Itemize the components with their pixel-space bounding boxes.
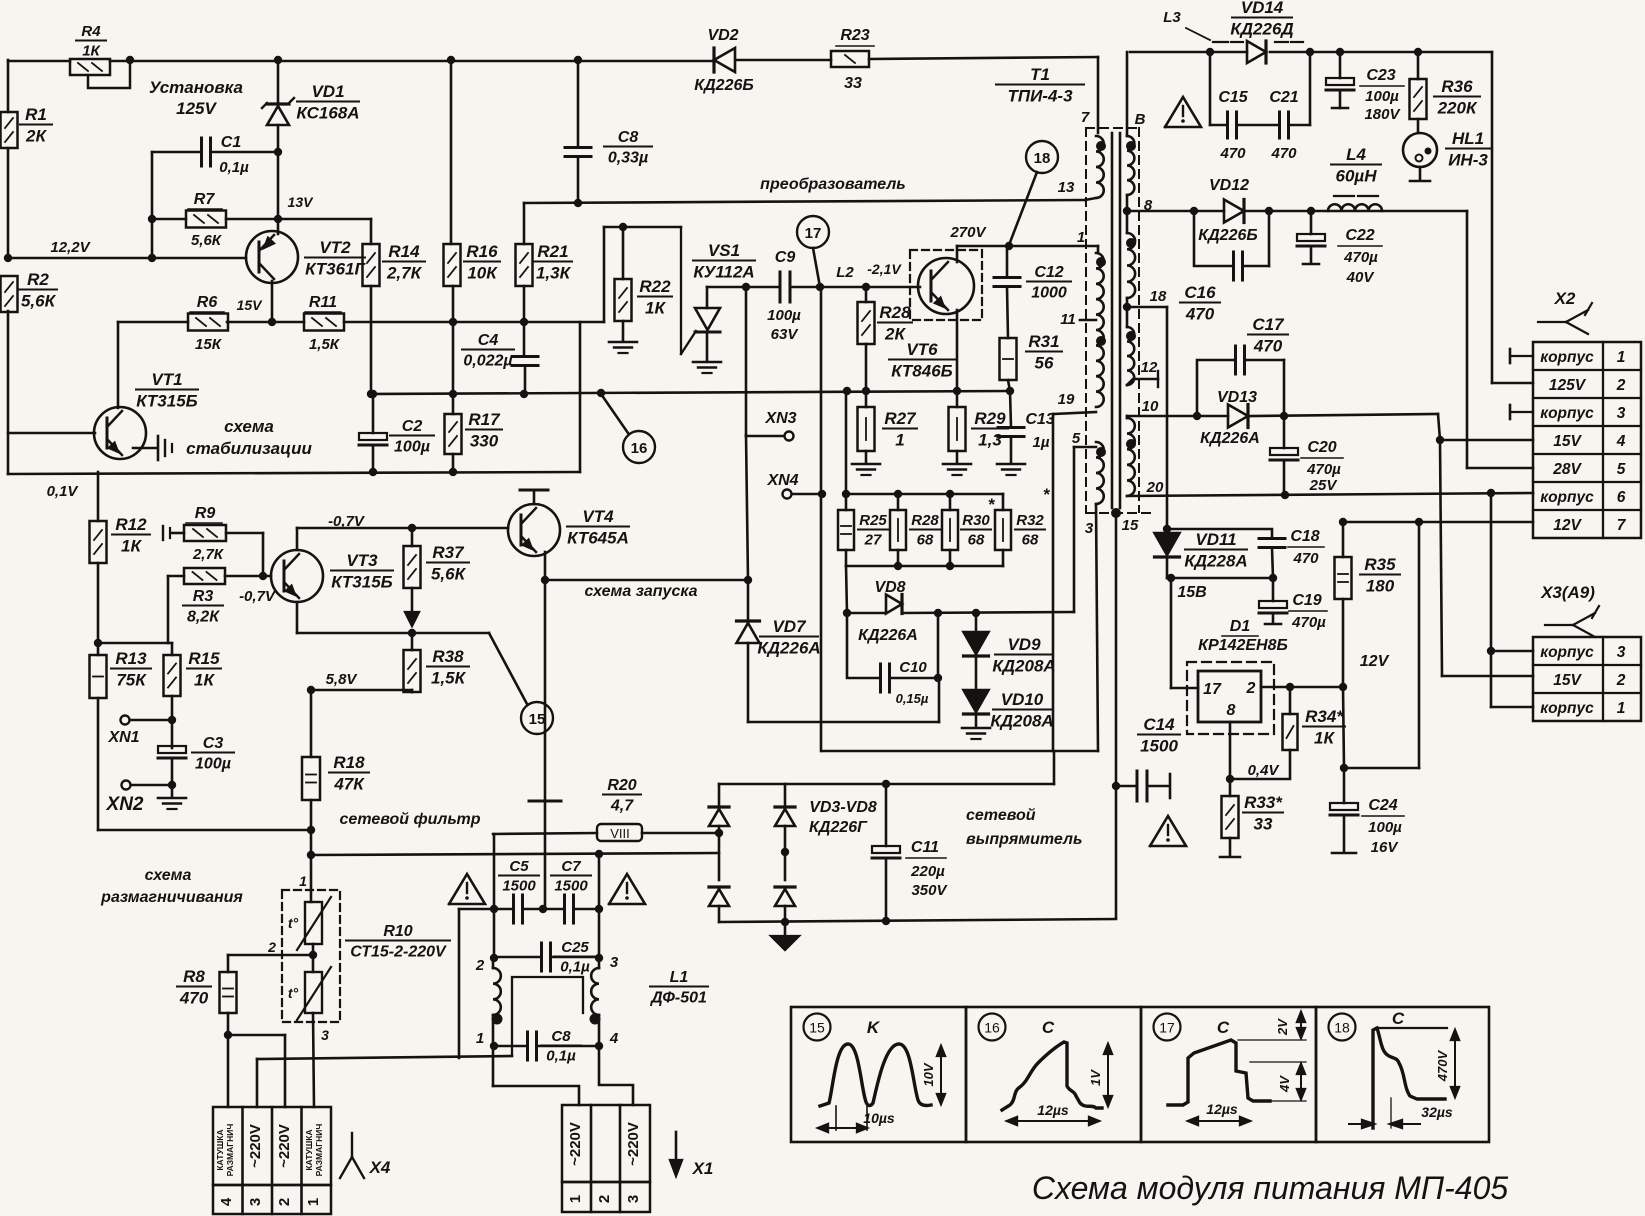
callout circle 18 <box>1026 141 1058 173</box>
diode VD5 <box>775 807 795 826</box>
capacitor C7 <box>551 858 591 923</box>
svg-text:КС168А: КС168А <box>296 104 359 123</box>
transformer dashed left <box>1085 128 1087 512</box>
svg-text:8,2К: 8,2К <box>187 609 220 626</box>
svg-text:28V: 28V <box>1552 461 1582 478</box>
svg-text:470V: 470V <box>1435 1049 1450 1082</box>
wire pin20 korpус line <box>1127 489 1533 499</box>
resistor R23 <box>831 27 874 92</box>
svg-text:1: 1 <box>305 1198 322 1206</box>
svg-text:470: 470 <box>1270 145 1297 162</box>
wire VT3 emitter <box>297 602 489 637</box>
ground R27 <box>852 464 880 475</box>
svg-text:VT4: VT4 <box>582 507 614 526</box>
svg-text:12V: 12V <box>1360 653 1390 670</box>
svg-text:16: 16 <box>631 440 648 457</box>
svg-text:15V: 15V <box>1553 672 1582 689</box>
svg-text:1: 1 <box>476 1030 484 1047</box>
svg-text:100µ: 100µ <box>1365 88 1399 105</box>
wire degauss to X4 <box>228 1035 285 1107</box>
svg-text:R35: R35 <box>1364 555 1396 574</box>
resistor R22 <box>615 277 673 321</box>
wire R18 column <box>307 690 315 902</box>
svg-text:L2: L2 <box>836 264 854 281</box>
svg-text:C14: C14 <box>1143 715 1175 734</box>
svg-text:C12: C12 <box>1034 264 1063 281</box>
resistor R18 <box>302 753 369 800</box>
resistor R38 <box>404 647 470 692</box>
svg-text:12,2V: 12,2V <box>50 239 91 256</box>
scope inset 18 <box>1316 1007 1489 1142</box>
wire left rail <box>4 60 12 474</box>
svg-text:КТ361Г: КТ361Г <box>305 260 366 279</box>
svg-text:XN1: XN1 <box>107 729 139 746</box>
resistor R9 <box>184 505 226 563</box>
svg-text:0,1µ: 0,1µ <box>560 959 590 976</box>
svg-text:1К: 1К <box>194 671 215 690</box>
wire mains line y855 <box>311 850 719 858</box>
svg-text:КАТУШКА: КАТУШКА <box>215 1129 225 1170</box>
svg-text:C8: C8 <box>618 129 639 146</box>
svg-text:5,6К: 5,6К <box>431 565 467 584</box>
svg-text:R15: R15 <box>188 649 220 668</box>
svg-text:XN4: XN4 <box>766 472 798 489</box>
ground R29 <box>943 464 971 475</box>
wire VT1 base <box>8 432 95 435</box>
svg-text:VT1: VT1 <box>151 370 182 389</box>
svg-text:C7: C7 <box>561 858 581 875</box>
diode VD8 <box>858 579 918 644</box>
connector XN4 <box>766 472 826 499</box>
svg-text:15: 15 <box>809 1020 825 1036</box>
svg-text:C17: C17 <box>1252 315 1285 334</box>
svg-text:КР142ЕН8Б: КР142ЕН8Б <box>1198 637 1288 654</box>
svg-text:C4: C4 <box>478 332 499 349</box>
svg-text:КТ315Б: КТ315Б <box>136 392 197 411</box>
capacitor C2 <box>359 418 434 456</box>
capacitor C12 <box>994 264 1071 302</box>
svg-text:C2: C2 <box>402 418 423 435</box>
svg-text:R9: R9 <box>195 505 216 522</box>
wire pin11 stub <box>1080 319 1096 322</box>
svg-text:18: 18 <box>1334 1020 1350 1036</box>
inductor L1 left coil <box>492 957 503 1025</box>
transistor VT3 <box>271 550 393 602</box>
svg-text:R4: R4 <box>81 23 101 40</box>
node сетевой выпрямитель <box>966 807 1082 848</box>
svg-text:8: 8 <box>1227 702 1236 719</box>
svg-text:t°: t° <box>288 985 299 1001</box>
svg-text:33: 33 <box>1254 815 1273 834</box>
svg-text:КД226А: КД226А <box>858 627 918 644</box>
svg-text:0,1µ: 0,1µ <box>219 159 249 176</box>
connector X1 arrow <box>670 1132 713 1178</box>
ground stub X2 pin3 <box>1510 405 1533 419</box>
svg-text:корпус: корпус <box>1540 700 1594 717</box>
svg-text:корпус: корпус <box>1540 405 1594 422</box>
wire pin18 drop <box>1163 307 1171 533</box>
diode VD7 <box>737 617 821 658</box>
wire XN3 to VD7 <box>746 435 748 580</box>
wire 13V to R14 <box>278 219 371 244</box>
wire bottom-left bus y472 <box>8 468 580 476</box>
svg-text:VD12: VD12 <box>1209 177 1249 194</box>
wire R8 leads <box>224 955 232 1039</box>
wire pin1 corner <box>1097 246 1100 253</box>
wire C10 loop <box>847 613 942 682</box>
svg-text:корпус: корпус <box>1540 644 1594 661</box>
transformer dashed right <box>1138 128 1140 512</box>
connector XN2 <box>106 781 172 816</box>
svg-text:0,33µ: 0,33µ <box>608 150 648 167</box>
svg-text:C: C <box>1042 1018 1055 1037</box>
svg-text:350V: 350V <box>911 882 948 899</box>
svg-text:100µ: 100µ <box>1368 819 1402 836</box>
svg-text:КД226Д: КД226Д <box>1230 20 1293 39</box>
svg-text:R28: R28 <box>911 512 939 529</box>
wire VD11 bottom <box>1167 557 1175 582</box>
transformer dashed pin15 <box>1086 512 1152 514</box>
wire VT4 emitter запуск line <box>541 552 752 584</box>
wire VS1 anode line <box>707 283 750 291</box>
wire R29 leads <box>956 391 959 463</box>
svg-text:VS1: VS1 <box>708 241 740 260</box>
svg-text:КД226А: КД226А <box>757 639 820 658</box>
capacitor C19 <box>1259 578 1327 631</box>
warning triangle right <box>609 874 645 904</box>
svg-text:180: 180 <box>1366 577 1395 596</box>
thermistor t1 <box>267 873 331 955</box>
svg-text:20: 20 <box>1146 479 1164 496</box>
node L1 pin3 <box>610 954 619 971</box>
svg-text:330: 330 <box>470 432 499 451</box>
svg-text:3: 3 <box>1617 644 1626 661</box>
svg-text:D1: D1 <box>1230 618 1251 635</box>
svg-text:17: 17 <box>1203 681 1222 698</box>
node -0,7V lower <box>239 588 277 605</box>
node L2 <box>836 264 854 281</box>
svg-text:470: 470 <box>1185 305 1215 324</box>
svg-text:R22: R22 <box>639 277 671 296</box>
wire R33 leads <box>1220 779 1240 857</box>
wire bank top rail <box>842 490 1003 510</box>
svg-text:1: 1 <box>1617 349 1626 366</box>
wire base bus y322 <box>118 318 604 326</box>
svg-text:схема запуска: схема запуска <box>584 583 697 600</box>
ground VT1 emitter chassis <box>158 436 172 460</box>
svg-text:4: 4 <box>1616 433 1626 450</box>
wire R27 leads <box>865 391 868 463</box>
capacitor C14 <box>1137 715 1180 801</box>
resistor R36 <box>1410 77 1481 119</box>
callout wire 17 <box>813 248 820 287</box>
wire D1 pin2 <box>1261 683 1347 691</box>
svg-text:R31: R31 <box>1028 332 1059 351</box>
resistor R7 <box>186 191 226 249</box>
diode VD2 <box>694 27 753 94</box>
svg-text:КД208А: КД208А <box>990 712 1053 731</box>
svg-text:125V: 125V <box>1549 377 1587 394</box>
wire VD9 leads <box>975 613 978 690</box>
wire 15V corner <box>1436 414 1533 444</box>
svg-text:C11: C11 <box>911 839 939 856</box>
wire pin4 to X1 <box>599 1046 633 1105</box>
capacitor C18 <box>1167 528 1324 578</box>
resistor R31 <box>1000 332 1063 380</box>
wire korpus X3 drop <box>1487 493 1533 707</box>
core bracket L1 <box>512 977 583 1056</box>
wire C8b line <box>494 1030 619 1050</box>
svg-text:выпрямитель: выпрямитель <box>966 831 1082 848</box>
wire bridge right col <box>781 784 789 922</box>
svg-text:Т1: Т1 <box>1030 65 1050 84</box>
resistor R14 <box>363 242 426 286</box>
node L1 pin2 <box>475 957 485 974</box>
svg-text:L3: L3 <box>1163 9 1181 26</box>
svg-text:R3: R3 <box>193 588 214 605</box>
wire pin15 drop <box>1112 513 1120 918</box>
svg-text:РАЗМАГНИЧ: РАЗМАГНИЧ <box>314 1124 324 1177</box>
svg-text:12µs: 12µs <box>1206 1101 1238 1117</box>
callout wire 18 <box>1009 172 1037 245</box>
connector X2 table <box>1533 342 1641 538</box>
svg-text:1,5К: 1,5К <box>309 336 341 353</box>
svg-text:10µs: 10µs <box>863 1110 895 1126</box>
svg-text:2: 2 <box>596 1195 613 1203</box>
winding 8-18 <box>1126 197 1153 298</box>
connector XN1 <box>107 716 172 747</box>
wire C12 leads <box>1007 246 1008 338</box>
svg-text:18: 18 <box>1150 288 1167 305</box>
svg-text:КАТУШКА: КАТУШКА <box>304 1129 314 1170</box>
wire R36 leads <box>1417 52 1420 133</box>
svg-text:3: 3 <box>625 1195 642 1203</box>
wire C2 leads <box>369 390 377 472</box>
scope inset 17 <box>1141 1007 1316 1142</box>
lamp HL1 <box>1403 129 1490 170</box>
node -0,7V upper <box>328 513 366 530</box>
connector X3 symbol <box>1540 583 1599 637</box>
svg-text:В: В <box>1135 111 1146 128</box>
svg-text:15: 15 <box>1122 517 1139 534</box>
wire D1 pin8 <box>1226 722 1234 783</box>
svg-text:5,6К: 5,6К <box>191 232 223 249</box>
inductor L4 <box>1328 145 1382 211</box>
svg-text:5,8V: 5,8V <box>326 671 359 688</box>
ground C13 <box>997 464 1025 475</box>
diode VD11 <box>1155 530 1248 571</box>
diode VD12 <box>1198 177 1257 244</box>
resistor R28 <box>890 510 940 550</box>
svg-text:VD14: VD14 <box>1241 0 1284 17</box>
wire R7 leads <box>152 218 278 221</box>
svg-text:VD11: VD11 <box>1195 530 1236 549</box>
svg-text:33: 33 <box>844 75 862 92</box>
caption <box>1032 1170 1509 1206</box>
wire R15 bottom <box>168 696 176 789</box>
svg-text:сетевой: сетевой <box>966 807 1036 824</box>
wire VD7 leads <box>748 580 939 722</box>
svg-text:40V: 40V <box>1346 269 1376 286</box>
wire R16 column <box>449 60 457 398</box>
resistor R3 <box>183 568 225 626</box>
node 5,8V <box>326 671 359 688</box>
resistor R35 <box>1335 555 1401 599</box>
svg-text:25V: 25V <box>1309 477 1339 494</box>
diode VD4 <box>709 887 729 906</box>
wire R21 column <box>520 203 528 398</box>
wire C5C7 line <box>459 905 603 913</box>
wire x459 drop <box>458 909 461 1058</box>
wire VT6 base <box>866 286 920 289</box>
wire bank bottom rail <box>846 550 1003 570</box>
transistor VT2 <box>246 231 366 283</box>
resistor R1 <box>1 105 53 148</box>
capacitor C24 <box>1330 768 1404 856</box>
wire bridge bottom rail <box>719 917 1116 926</box>
wire R4 bypass jog <box>88 60 130 88</box>
svg-text:R17: R17 <box>468 410 501 429</box>
capacitor C25 <box>542 939 597 976</box>
svg-text:R12: R12 <box>115 515 147 534</box>
svg-text:VD8: VD8 <box>874 579 905 596</box>
svg-text:1: 1 <box>299 873 307 889</box>
svg-text:R6: R6 <box>197 294 218 311</box>
svg-text:0,15µ: 0,15µ <box>896 691 929 706</box>
capacitor C22 <box>1297 211 1382 286</box>
wire L1 pin4 line <box>598 1015 601 1046</box>
wire 125V corner <box>1492 52 1533 383</box>
wire VT2 emitter <box>268 281 276 326</box>
wire R37 leads <box>411 528 414 612</box>
arrow R37 chassis <box>405 612 419 626</box>
svg-text:13V: 13V <box>288 194 315 210</box>
svg-text:5: 5 <box>1617 461 1626 478</box>
node 12V <box>1360 653 1390 670</box>
svg-text:1500: 1500 <box>502 878 536 895</box>
svg-text:15К: 15К <box>195 336 223 353</box>
svg-text:C24: C24 <box>1368 797 1397 814</box>
svg-text:19: 19 <box>1058 391 1075 408</box>
svg-text:КТ645А: КТ645А <box>567 529 629 548</box>
svg-text:L4: L4 <box>1346 145 1366 164</box>
wire HL1 bottom <box>1410 167 1430 181</box>
wire B riser <box>1126 52 1129 136</box>
svg-text:R38: R38 <box>432 647 464 666</box>
wire pin13 line <box>524 200 1085 203</box>
ground R22 <box>609 342 637 353</box>
node 15 <box>1111 508 1139 534</box>
svg-text:27: 27 <box>864 532 882 549</box>
svg-text:2: 2 <box>267 939 276 955</box>
diode VD13 <box>1200 389 1260 447</box>
svg-text:ТПИ-4-3: ТПИ-4-3 <box>1007 87 1073 106</box>
capacitor C3 <box>158 735 234 773</box>
wire pin8 rail <box>1190 207 1467 215</box>
svg-text:C19: C19 <box>1292 592 1321 609</box>
capacitor C8b <box>528 1028 582 1065</box>
node 12,2V <box>50 239 91 256</box>
scope inset 15 <box>791 1007 966 1142</box>
svg-text:X3(А9): X3(А9) <box>1540 583 1595 602</box>
svg-text:0,1V: 0,1V <box>47 483 80 500</box>
wire VT1 emitter <box>133 447 156 450</box>
inductor L3 marks <box>1163 9 1303 42</box>
thermistor t2 <box>288 967 331 1043</box>
svg-text:56: 56 <box>1035 354 1054 373</box>
resistor R11 <box>304 294 344 353</box>
wire top 125V bus <box>8 56 714 64</box>
wire pin12 stub <box>1127 359 1158 387</box>
svg-text:C5: C5 <box>509 858 529 875</box>
svg-text:КД226Б: КД226Б <box>1198 227 1257 244</box>
svg-text:1: 1 <box>567 1195 584 1203</box>
resistor R2 <box>1 270 58 312</box>
wire VD10 lead <box>975 714 978 727</box>
resistor R20 VIII <box>597 777 642 841</box>
svg-text:75К: 75К <box>116 671 147 690</box>
svg-text:РАЗМАГНИЧ: РАЗМАГНИЧ <box>225 1124 235 1177</box>
resistor R25 <box>838 510 888 550</box>
wire 12V rail <box>1343 518 1533 768</box>
connector X2 symbol <box>1538 289 1592 334</box>
wire therm mid <box>228 944 317 972</box>
svg-text:2: 2 <box>1246 680 1256 697</box>
capacitor C8 <box>565 129 652 167</box>
wire R38 leads <box>307 633 412 694</box>
wire 15V node line <box>1167 574 1277 582</box>
svg-text:R32: R32 <box>1016 512 1044 529</box>
resistor R37 <box>404 543 470 588</box>
svg-text:2К: 2К <box>25 127 47 146</box>
svg-text:2: 2 <box>1616 377 1626 394</box>
svg-text:C25: C25 <box>561 939 589 956</box>
svg-text:R16: R16 <box>466 242 498 261</box>
callout circle 17 <box>797 216 829 248</box>
svg-text:15V: 15V <box>1553 433 1582 450</box>
svg-text:10: 10 <box>1142 398 1159 415</box>
resistor R4 <box>70 23 110 75</box>
connector X1 table <box>562 1105 650 1212</box>
svg-text:XN3: XN3 <box>764 410 796 427</box>
resistor R32 <box>995 485 1051 550</box>
capacitor C16 <box>1180 211 1269 324</box>
svg-text:стабилизации: стабилизации <box>186 439 312 458</box>
zener VD1 <box>262 82 360 125</box>
wire VT4 collector bar <box>520 490 548 504</box>
svg-text:VT6: VT6 <box>906 340 938 359</box>
callout wire 16 <box>601 394 628 433</box>
svg-text:4,7: 4,7 <box>610 798 634 815</box>
wire C5 riser x494 <box>493 834 496 958</box>
capacitor C15 <box>1218 89 1248 162</box>
svg-text:68: 68 <box>968 532 985 549</box>
wire R3 left <box>168 576 184 643</box>
capacitor C10 <box>881 659 929 706</box>
label L1 <box>649 969 708 1007</box>
svg-text:68: 68 <box>1022 532 1039 549</box>
svg-text:R28: R28 <box>879 303 911 322</box>
svg-text:470: 470 <box>179 989 209 1008</box>
wire preobr left edge <box>580 287 821 751</box>
svg-text:220µ: 220µ <box>910 863 945 880</box>
svg-text:2V: 2V <box>1275 1018 1290 1036</box>
capacitor C4 <box>462 332 538 370</box>
svg-text:220К: 220К <box>1437 99 1478 118</box>
svg-text:КД226Б: КД226Б <box>694 77 753 94</box>
wire bridge top rail <box>719 752 1054 788</box>
thyristor VS1 <box>681 227 755 361</box>
